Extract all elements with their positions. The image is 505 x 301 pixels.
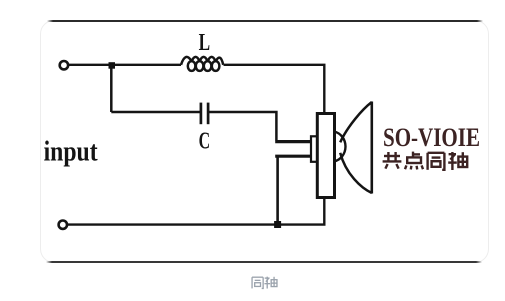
speaker terminal bar (-) — [275, 155, 311, 158]
wire — [111, 111, 200, 113]
terminal J1 (input +) — [60, 61, 68, 69]
svg-text:L: L — [199, 30, 211, 56]
wire — [276, 157, 279, 223]
svg-text:SO-VIOIE: SO-VIOIE — [383, 123, 480, 152]
caption 同轴 — [252, 277, 277, 289]
speaker terminal bar (+) — [275, 140, 311, 143]
wire — [110, 65, 113, 112]
wire — [69, 64, 181, 66]
capacitor C1 — [201, 103, 208, 125]
wire — [68, 198, 324, 225]
terminal J2 (input -) — [59, 221, 67, 229]
speaker SP1 — [311, 102, 372, 198]
svg-text:C: C — [199, 128, 211, 154]
svg-text:input: input — [44, 137, 99, 168]
inductor L1 — [181, 57, 223, 71]
node A (junction) — [109, 62, 116, 68]
node B (junction) — [274, 221, 281, 228]
wire — [224, 65, 325, 114]
label 共点同轴 — [383, 152, 468, 170]
wire — [209, 112, 277, 140]
